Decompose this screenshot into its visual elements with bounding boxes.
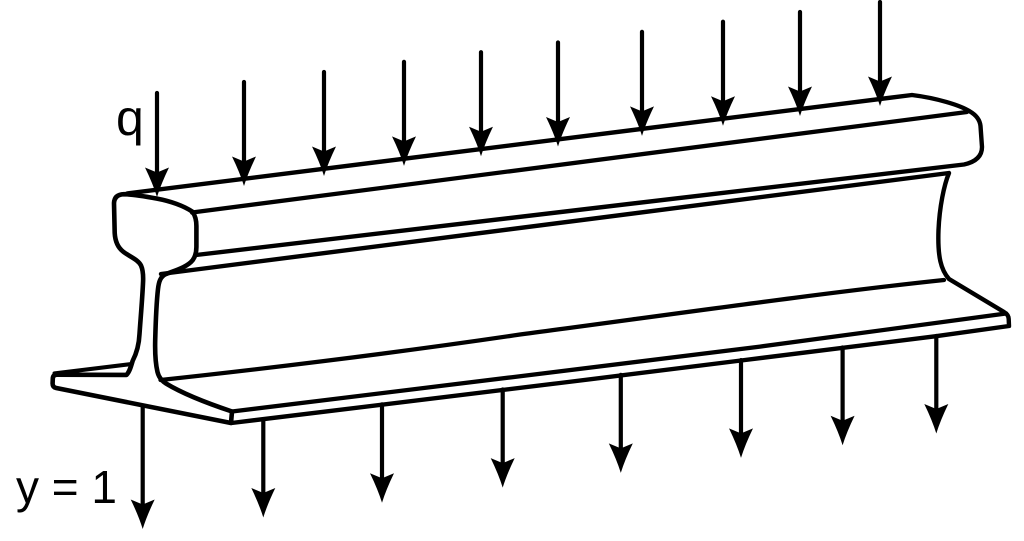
load arrow T10 xyxy=(878,2,882,88)
rail head near top edge (gauge corner line) xyxy=(192,112,967,213)
svg-text:q: q xyxy=(116,90,144,146)
load arrow T6 xyxy=(556,43,560,129)
load arrow T2 xyxy=(242,82,246,168)
load arrow T3 xyxy=(322,72,326,158)
reaction arrow B1 xyxy=(141,406,145,511)
reaction arrow B3 xyxy=(380,404,384,484)
foot left-tip top extrusion sliver line xyxy=(55,364,132,373)
load arrow T5 xyxy=(479,52,483,138)
rail front cross-section outline xyxy=(53,194,232,423)
top distributed load arrows (q) xyxy=(145,2,892,197)
reaction arrow B6 xyxy=(739,360,743,440)
web-foot fillet extrusion line xyxy=(161,280,945,380)
bottom reaction arrows (y = 1) xyxy=(131,336,949,529)
load arrow T4 xyxy=(402,62,406,148)
reaction arrow B4 xyxy=(501,390,505,470)
load arrow T1 xyxy=(155,93,159,179)
reaction arrow B5 xyxy=(619,375,623,455)
foot near-top edge xyxy=(232,314,1006,412)
reaction arrow B2 xyxy=(261,419,265,499)
load arrow T8 xyxy=(721,22,725,108)
reaction arrow B7 xyxy=(840,348,844,428)
reaction arrow B8 xyxy=(934,336,938,416)
head underside lower line, far web profile, far foot end and foot bottom edge xyxy=(161,173,1009,423)
load arrow T7 xyxy=(640,32,644,118)
load arrow T9 xyxy=(798,12,802,98)
svg-text:y = 1: y = 1 xyxy=(16,461,117,513)
rail head top silhouette, far-end face and underside edge xyxy=(127,95,982,255)
